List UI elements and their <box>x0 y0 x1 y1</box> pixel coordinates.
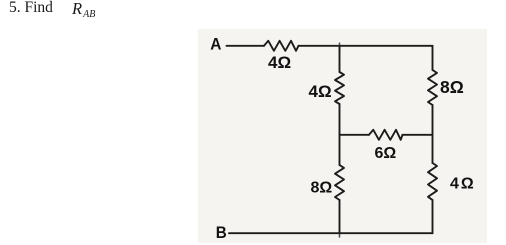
resistor R1 4ohm (top horizontal) <box>264 41 299 51</box>
title: 5. Find R_AB <box>9 0 53 18</box>
svg-text:8Ω: 8Ω <box>440 77 464 97</box>
resistor R2 4ohm (middle vertical top) <box>335 72 344 104</box>
wire: bottom from B to bottom-right corner <box>229 232 433 234</box>
svg-text:B: B <box>216 223 227 242</box>
svg-text:4Ω: 4Ω <box>450 176 476 193</box>
wire: middle branch bottom segment <box>339 200 341 234</box>
resistor R4 8ohm (right vertical top) <box>428 70 437 105</box>
node junction bottom (tick) <box>339 234 341 238</box>
wire: middle horizontal right of R6 <box>403 134 433 136</box>
resistor R6 6ohm (middle horizontal) <box>369 130 403 140</box>
wire: middle branch top segment <box>339 46 341 72</box>
wire: right branch bottom segment <box>432 200 434 233</box>
svg-text:4Ω: 4Ω <box>268 53 291 72</box>
wire: A to resistor R1 <box>227 45 265 47</box>
svg-text:8Ω: 8Ω <box>311 180 333 197</box>
svg-text:6Ω: 6Ω <box>375 145 397 162</box>
wire: right branch middle segment <box>432 105 434 163</box>
svg-text:4Ω: 4Ω <box>309 82 332 101</box>
resistor R5 4ohm (right vertical bottom) <box>428 163 437 200</box>
wire: middle branch middle segment <box>339 104 341 165</box>
node junction top (tick) <box>339 43 341 52</box>
wire: right branch top segment <box>432 46 434 70</box>
resistor R3 8ohm (middle vertical bottom) <box>335 165 344 200</box>
svg-text:A: A <box>210 35 221 54</box>
wire: middle horizontal left of R6 <box>340 134 370 136</box>
wire: R1 to top-right corner <box>299 45 433 47</box>
scanned circuit panel background <box>198 29 487 243</box>
